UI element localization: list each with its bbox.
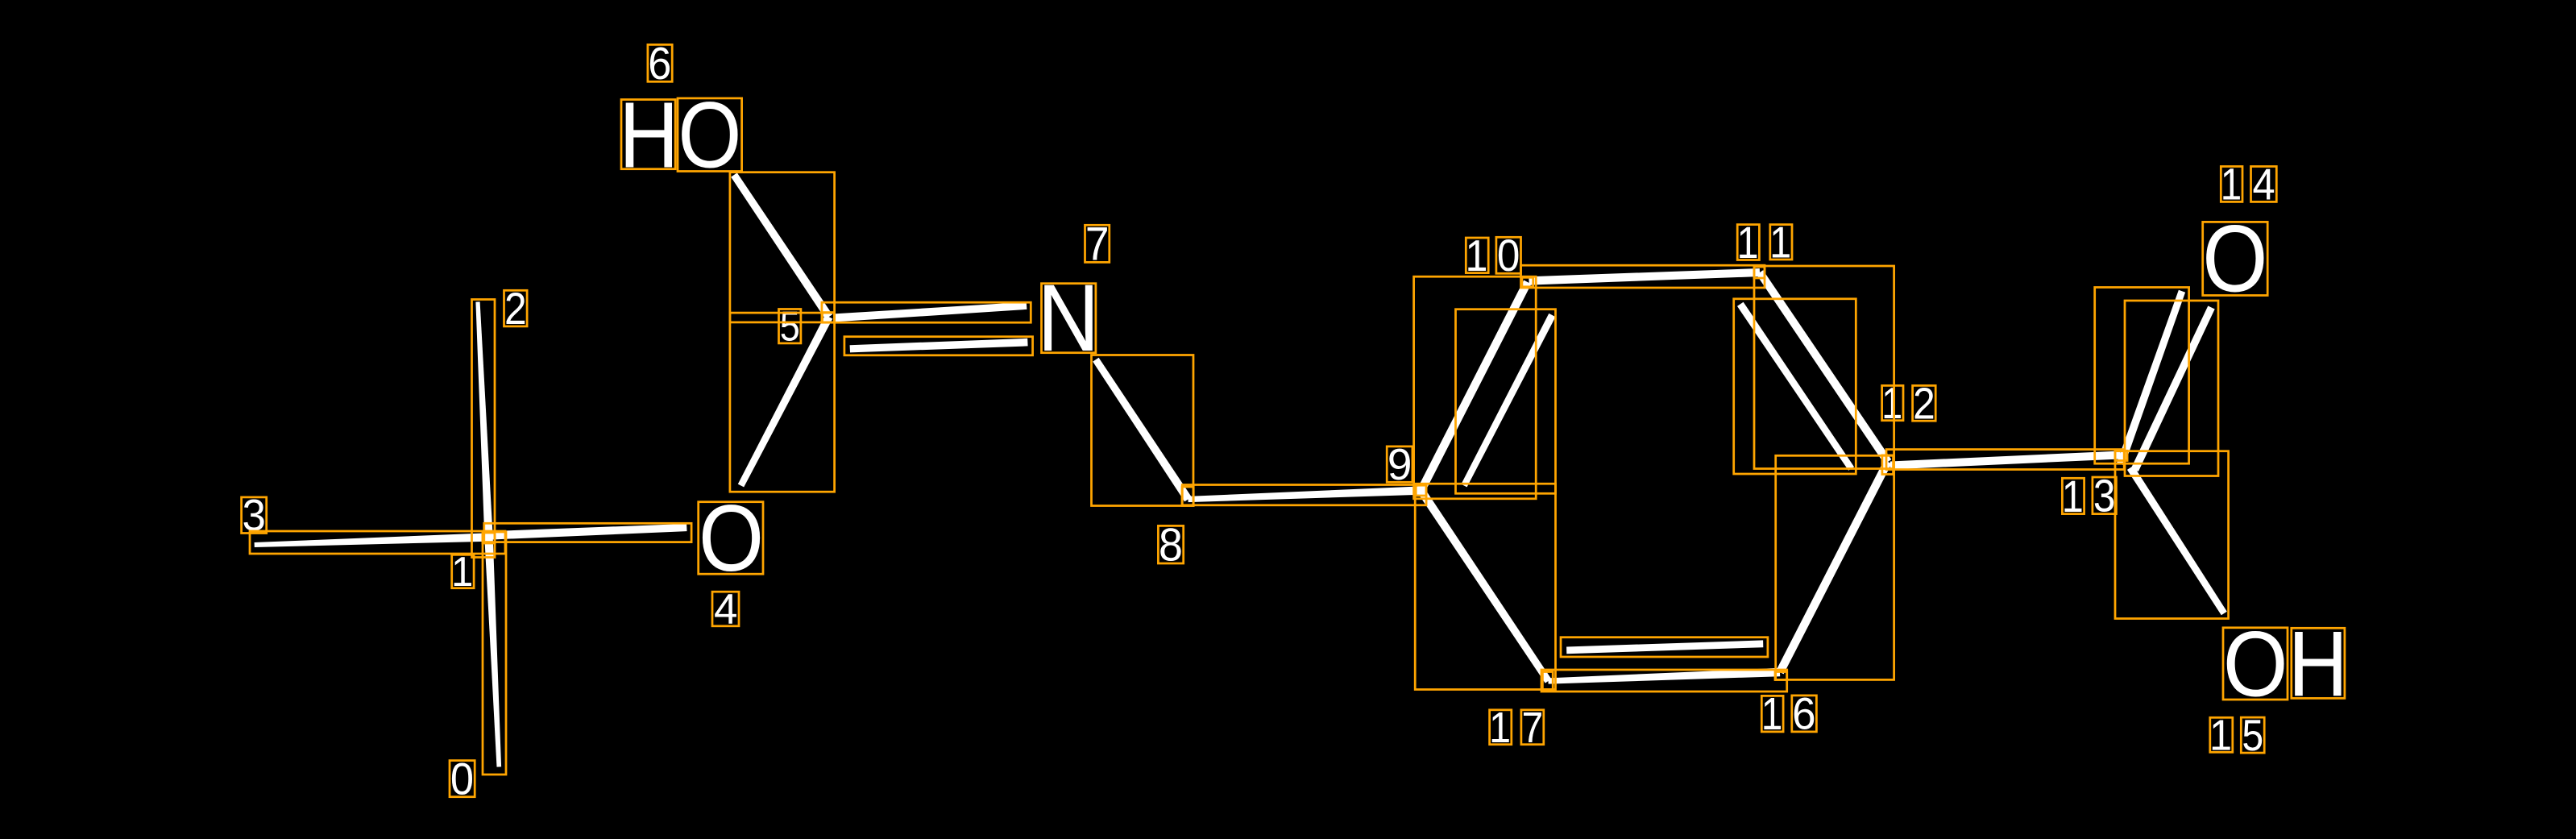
svg-text:N: N	[1037, 264, 1099, 371]
